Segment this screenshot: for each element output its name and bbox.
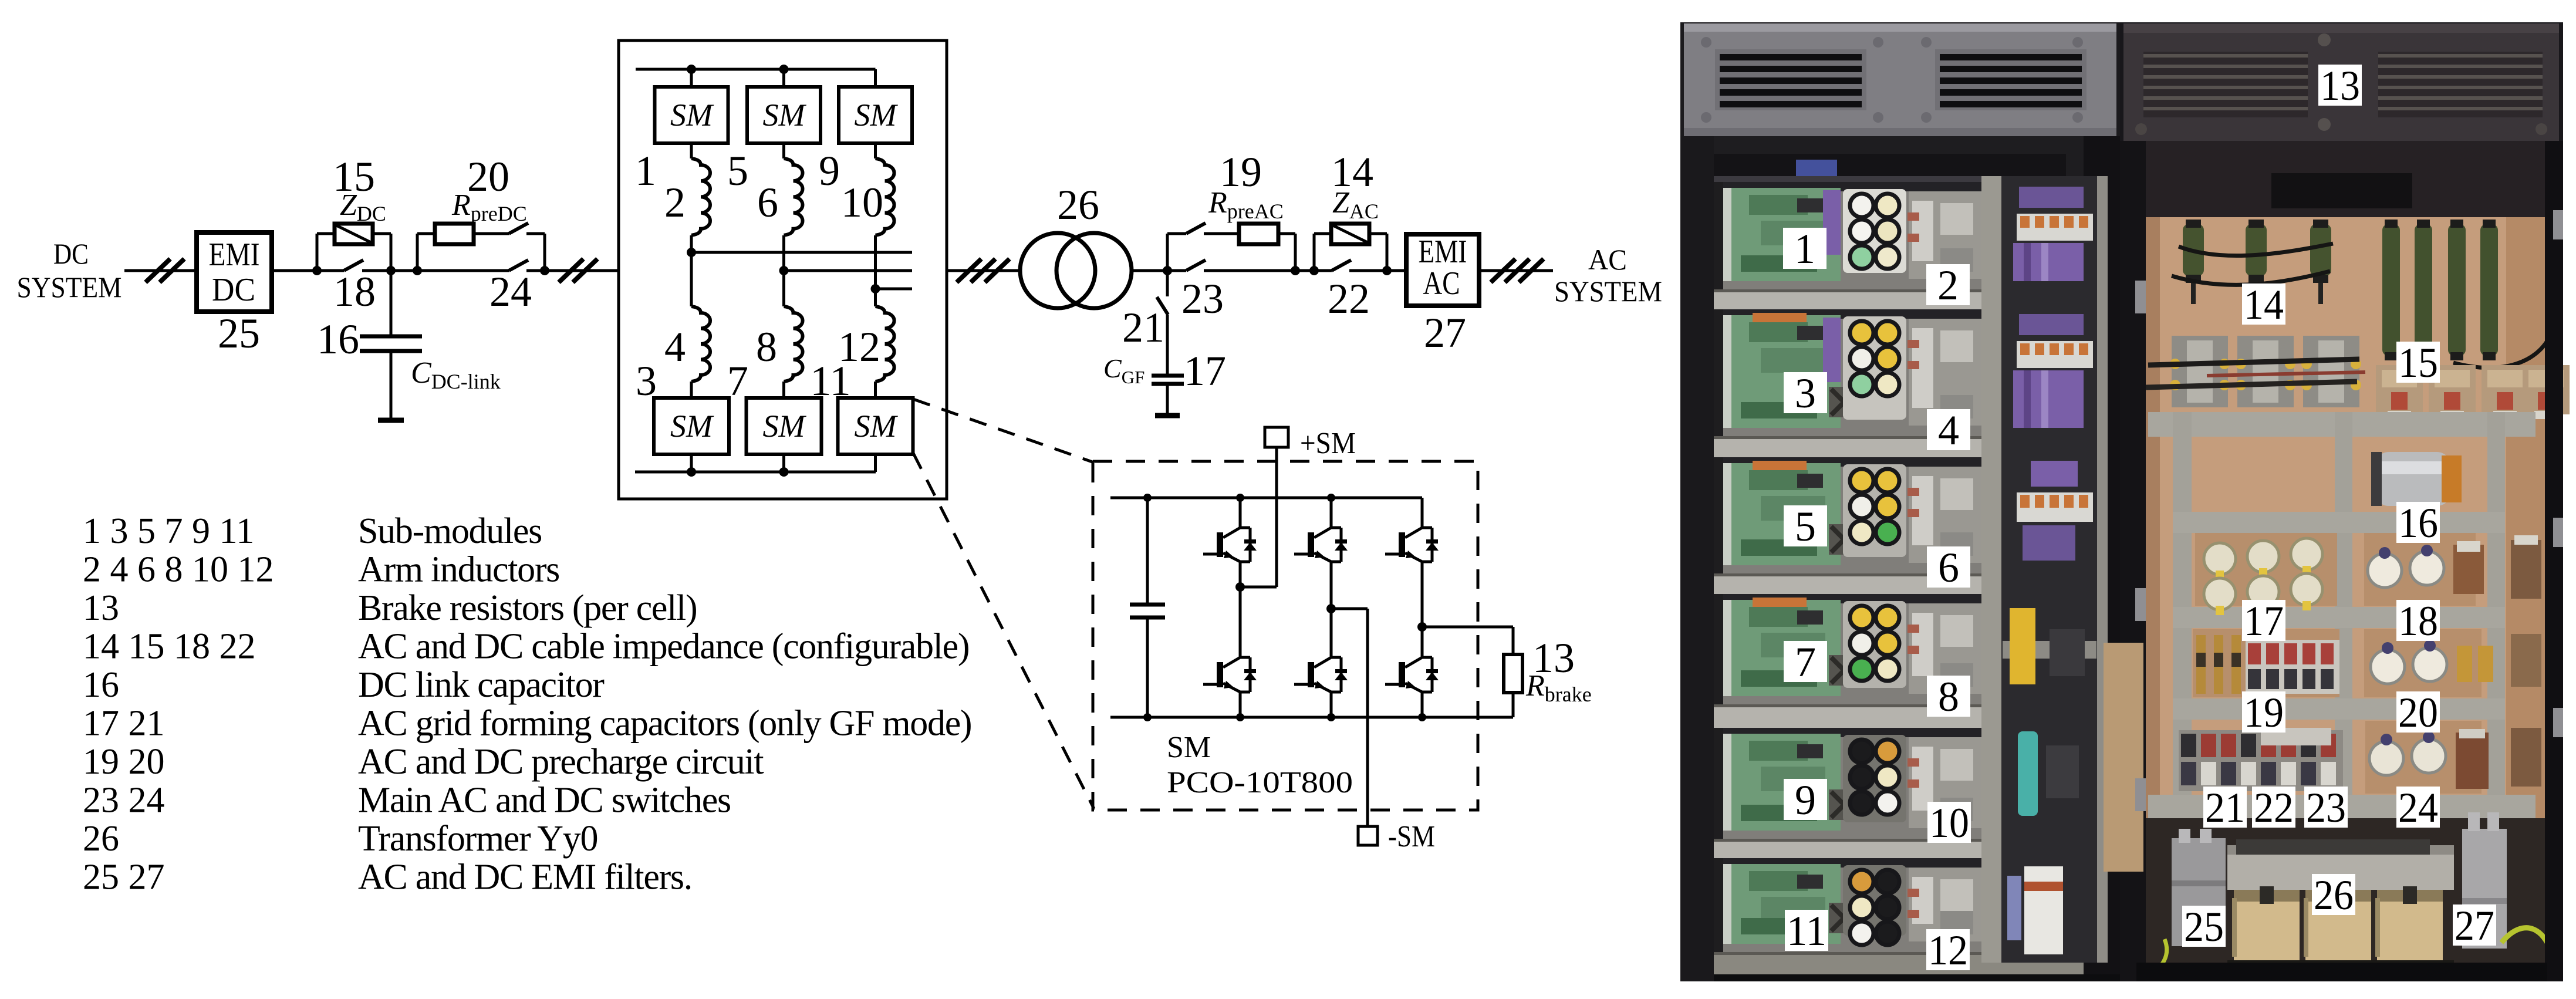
capacitor 17 C_GF top plate xyxy=(1152,374,1184,378)
svg-text:Main AC and DC switches: Main AC and DC switches xyxy=(358,781,731,821)
photo: shelf rail xyxy=(1714,839,2084,858)
wire xyxy=(1204,269,1295,272)
MMC converter outline box xyxy=(619,41,947,499)
wire EMI DC to node A xyxy=(272,269,317,272)
photo: left cabinet right frame xyxy=(2084,136,2120,981)
wire xyxy=(874,143,877,158)
switch 24 (main DC switch) xyxy=(509,260,528,271)
wire phase a output xyxy=(691,251,912,254)
photo: transformer 26 xyxy=(2227,852,2454,890)
svg-text:16: 16 xyxy=(83,665,119,705)
junction rail xyxy=(1143,494,1152,502)
photo: filter choke blocks xyxy=(2172,336,2228,407)
junction bus xyxy=(687,467,696,477)
wire SM positive rail xyxy=(1110,497,1422,500)
svg-text:13: 13 xyxy=(83,588,119,628)
svg-text:EMI: EMI xyxy=(1419,234,1467,270)
sub-module SM 9 (upper arm) xyxy=(839,87,912,143)
svg-text:17: 17 xyxy=(1184,347,1226,394)
wire upper arm to lower arm xyxy=(874,235,877,306)
svg-text:SM: SM xyxy=(763,97,807,133)
svg-text:24: 24 xyxy=(2398,784,2438,831)
junction DC-link node xyxy=(386,266,396,275)
svg-text:25: 25 xyxy=(218,310,260,357)
wire xyxy=(1295,269,1314,272)
photo: left cabinet bottom edge xyxy=(1714,974,2120,981)
junction xyxy=(1382,266,1392,275)
wire xyxy=(1314,232,1331,235)
wire xyxy=(690,69,693,87)
ground symbol xyxy=(1155,413,1180,419)
svg-text:18: 18 xyxy=(333,268,376,315)
svg-text:DC: DC xyxy=(53,237,89,270)
wire AC precharge branch left xyxy=(1166,234,1169,271)
wire xyxy=(1512,627,1515,654)
wire xyxy=(1421,692,1424,717)
wire xyxy=(526,269,545,272)
svg-text:11: 11 xyxy=(1787,907,1827,954)
photo: fuse and terminal rows 19 xyxy=(2196,635,2206,694)
wire xyxy=(1369,232,1387,235)
wire DC- bottom bus xyxy=(635,471,876,474)
photo: electrolytic capacitor 16 xyxy=(2375,452,2451,506)
svg-text:2: 2 xyxy=(1937,262,1959,309)
DC bus slash marks xyxy=(146,259,184,282)
photo: fuse holder modules xyxy=(2376,365,2423,414)
wire xyxy=(526,232,545,235)
impedance Z_DC 15 (configurable cable impedance) xyxy=(335,224,373,244)
svg-text:21: 21 xyxy=(1122,304,1164,351)
wire xyxy=(417,232,435,235)
callout dashed line (SM zoom bottom) xyxy=(913,453,1094,809)
svg-text:AC and DC cable impedance (con: AC and DC cable impedance (configurable) xyxy=(358,627,969,667)
sub-module SM 5 (upper arm) xyxy=(747,87,821,143)
photo: left cabinet center divider xyxy=(1981,176,2001,963)
wire AC precharge branch right xyxy=(1294,234,1297,271)
svg-text:4: 4 xyxy=(1938,407,1959,454)
terminal +SM xyxy=(1265,427,1288,447)
svg-text:SM: SM xyxy=(670,409,714,444)
transistor Q4 (IGBT with antiparallel diode) xyxy=(1294,657,1348,692)
arm inductor 2 (upper) xyxy=(691,158,710,235)
junction phase 3 output node xyxy=(871,284,880,293)
photo: right cabinet tan back panel xyxy=(2136,217,2547,822)
wire xyxy=(417,269,509,272)
wire EMI AC to AC system xyxy=(1479,269,1553,272)
transistor Q5 (IGBT with antiparallel diode) xyxy=(1385,528,1439,562)
wire half-bridge midpoint xyxy=(1239,562,1242,657)
svg-text:19: 19 xyxy=(2244,689,2284,736)
svg-text:5: 5 xyxy=(1795,503,1816,550)
transformer 26 (Yy0) xyxy=(1020,233,1095,308)
wire xyxy=(373,232,391,235)
transistor Q1 (IGBT with antiparallel diode) xyxy=(1203,528,1257,562)
photo: left cabinet shelf row 5 xyxy=(1714,728,2084,839)
junction brake tap xyxy=(1417,622,1427,632)
photo: right cabinet bottom bay xyxy=(2136,818,2547,974)
photo: vent grille xyxy=(1715,49,1866,110)
svg-text:9: 9 xyxy=(819,147,840,194)
wire Z_AC branch left xyxy=(1313,234,1316,271)
wire Z_AC branch right xyxy=(1386,234,1389,271)
impedance Z_AC 14 (configurable cable impedance) xyxy=(1331,224,1369,244)
photo: left cabinet interior xyxy=(1714,176,2084,963)
wire xyxy=(1132,269,1167,272)
wire half-bridge midpoint xyxy=(1421,562,1424,657)
wire to C_GF xyxy=(1166,315,1169,376)
capacitor 16 C_DC-link top plate xyxy=(360,335,422,339)
EMI filter 25 (EMI DC) xyxy=(197,232,272,312)
wire xyxy=(782,382,785,398)
wire Z_DC branch right xyxy=(390,234,393,271)
EMI filter 27 (EMI AC) xyxy=(1406,234,1479,306)
svg-text:+SM: +SM xyxy=(1300,427,1356,460)
photo: terminal block rows 21 22 23 xyxy=(2179,730,2343,791)
photo: left cabinet shelf row 3 xyxy=(1714,457,2084,573)
svg-text:PCO-10T800: PCO-10T800 xyxy=(1167,766,1353,799)
svg-text:7: 7 xyxy=(1795,639,1816,686)
photo: shelf rail xyxy=(1714,952,2084,974)
photo: left cabinet body xyxy=(1680,22,2120,981)
junction bus xyxy=(687,65,696,74)
junction xyxy=(1309,266,1319,275)
wire xyxy=(1349,269,1387,272)
svg-text:21: 21 xyxy=(2205,784,2245,831)
photo: left cabinet shelf row 6 xyxy=(1714,858,2084,952)
svg-text:Transformer Yy0: Transformer Yy0 xyxy=(358,819,597,859)
wire xyxy=(474,232,509,235)
wire to MMC xyxy=(545,269,619,272)
wire xyxy=(690,454,693,472)
svg-text:DC link capacitor: DC link capacitor xyxy=(358,665,605,705)
wire xyxy=(874,382,877,398)
svg-text:27: 27 xyxy=(2455,902,2494,949)
wire half-bridge midpoint xyxy=(1330,562,1333,657)
junction AC node xyxy=(1163,266,1172,275)
svg-text:Arm inductors: Arm inductors xyxy=(358,550,559,590)
svg-text:23 24: 23 24 xyxy=(83,781,165,821)
svg-text:-SM: -SM xyxy=(1388,820,1435,853)
svg-text:17 21: 17 21 xyxy=(83,704,165,744)
photo: duct right rail xyxy=(2097,176,2108,963)
callout dashed line (SM zoom top) xyxy=(913,399,1094,463)
resistor R_preAC 19 (AC precharge) xyxy=(1239,224,1278,244)
svg-text:8: 8 xyxy=(1938,673,1959,720)
svg-text:6: 6 xyxy=(1938,544,1959,591)
svg-text:5: 5 xyxy=(727,147,748,194)
sub-module SM 3 (lower arm) xyxy=(654,398,729,454)
photo: right cabinet shadow band xyxy=(2136,141,2547,217)
wire precharge branch right xyxy=(543,234,546,271)
svg-text:SYSTEM: SYSTEM xyxy=(17,271,122,303)
terminal -SM xyxy=(1358,826,1378,845)
svg-text:4: 4 xyxy=(664,323,686,370)
wire xyxy=(782,454,785,472)
junction +SM tap xyxy=(1235,582,1245,592)
photo: round capacitors group 18 xyxy=(2368,553,2402,588)
svg-text:1: 1 xyxy=(1794,225,1815,272)
wire xyxy=(782,143,785,158)
svg-text:1: 1 xyxy=(635,147,656,194)
wire xyxy=(391,269,417,272)
junction xyxy=(540,266,549,275)
sub-module detail dashed box xyxy=(1093,461,1478,810)
AC bus slash marks xyxy=(957,259,1010,282)
svg-text:6: 6 xyxy=(757,179,778,226)
wire precharge branch left xyxy=(416,234,419,271)
svg-text:14: 14 xyxy=(2244,281,2284,328)
svg-text:3: 3 xyxy=(1795,370,1816,417)
resistor R_brake 13 (brake resistor) xyxy=(1504,654,1522,693)
photo: shelf rail xyxy=(1714,436,2084,457)
svg-text:12: 12 xyxy=(838,323,880,370)
wire xyxy=(782,69,785,87)
impedance symbol diagonal xyxy=(335,225,372,243)
wire xyxy=(1204,232,1239,235)
svg-text:1 3 5 7 9 11: 1 3 5 7 9 11 xyxy=(83,511,254,551)
photo: shelf rail xyxy=(1714,573,2084,594)
svg-text:Sub-modules: Sub-modules xyxy=(358,511,542,551)
wire xyxy=(1167,232,1186,235)
photo: right cabinet body xyxy=(2120,22,2563,981)
svg-text:17: 17 xyxy=(2244,598,2284,644)
photo: left cabinet left frame xyxy=(1680,136,1714,981)
wire DC+ top bus xyxy=(636,68,876,71)
wire xyxy=(1387,269,1406,272)
wire xyxy=(1330,692,1333,717)
junction rail xyxy=(1327,494,1335,502)
photo: left cabinet shelf row 1 xyxy=(1714,182,2084,289)
node A junction xyxy=(312,266,322,275)
svg-text:SM: SM xyxy=(763,409,807,444)
junction rail xyxy=(1143,713,1152,721)
wire MMC to transformer xyxy=(947,269,1020,272)
svg-text:SM: SM xyxy=(670,97,714,133)
photo: left cabinet top vent panel xyxy=(1684,23,2116,136)
wire DC system to EMI DC xyxy=(124,269,197,272)
junction rail xyxy=(1327,713,1335,721)
photo: right cabinet left frame xyxy=(2120,141,2146,981)
svg-text:24: 24 xyxy=(489,268,532,315)
photo: numbered labels xyxy=(1783,228,1827,269)
arm inductor 10 (upper) xyxy=(876,158,894,235)
photo: EMI filter box 27 xyxy=(2462,829,2507,949)
wire xyxy=(1421,498,1424,528)
wire xyxy=(1331,607,1368,610)
junction rail xyxy=(1236,494,1244,502)
capacitor 17 bottom plate xyxy=(1152,382,1184,386)
photo: vent grille xyxy=(2143,52,2308,117)
svg-text:16: 16 xyxy=(2398,500,2438,546)
photo: vent grille xyxy=(1935,49,2087,110)
svg-text:2 4 6 8 10 12: 2 4 6 8 10 12 xyxy=(83,550,274,590)
arm inductor 4 (lower) xyxy=(691,306,710,382)
junction bus xyxy=(779,65,789,74)
svg-text:AC grid forming capacitors (on: AC grid forming capacitors (only GF mode… xyxy=(358,704,971,744)
svg-text:20: 20 xyxy=(467,153,509,200)
svg-text:AC: AC xyxy=(1423,265,1460,302)
svg-text:2: 2 xyxy=(664,179,686,226)
photo: shelf rail xyxy=(1714,289,2084,309)
switch 18 (DC impedance bypass) xyxy=(344,260,363,271)
wire phase b output xyxy=(784,269,913,272)
switch 21 (GF capacitor switch) xyxy=(1157,297,1168,315)
transistor Q3 (IGBT with antiparallel diode) xyxy=(1294,528,1348,562)
wire to -SM terminal xyxy=(1366,609,1369,826)
svg-text:SM: SM xyxy=(1167,731,1211,764)
wire xyxy=(1278,232,1295,235)
photo: right cabinet top panel xyxy=(2123,23,2559,141)
wire upper arm to lower arm xyxy=(690,235,693,306)
photo: left cabinet header band xyxy=(1684,136,2087,182)
photo: background wall strip xyxy=(2104,643,2143,872)
svg-text:8: 8 xyxy=(756,323,777,370)
wire Z_DC branch left xyxy=(316,234,319,271)
svg-text:26: 26 xyxy=(2314,872,2354,919)
DC bus slash marks xyxy=(559,259,597,282)
svg-text:SM: SM xyxy=(855,409,899,444)
junction phase 1 output node xyxy=(687,248,696,257)
switch 22 (AC impedance bypass) xyxy=(1332,260,1351,271)
wire xyxy=(874,454,877,472)
photo: left cabinet shelf row 4 xyxy=(1714,594,2084,704)
svg-text:EMI: EMI xyxy=(209,237,260,273)
wire to switch 21 xyxy=(1166,271,1169,296)
impedance symbol diagonal xyxy=(1332,225,1369,243)
wire xyxy=(1146,498,1149,605)
svg-text:25 27: 25 27 xyxy=(83,858,165,897)
svg-text:16: 16 xyxy=(317,316,359,363)
wire SM negative rail xyxy=(1110,716,1513,719)
wire xyxy=(317,232,335,235)
sub-module SM 11 (lower arm) xyxy=(838,398,913,454)
svg-text:26: 26 xyxy=(83,819,119,859)
svg-text:20: 20 xyxy=(2398,689,2438,736)
svg-text:AC: AC xyxy=(1588,243,1627,276)
junction rail xyxy=(1418,713,1426,721)
svg-text:AC and DC EMI filters.: AC and DC EMI filters. xyxy=(358,858,692,897)
photo: right cabinet rack frame xyxy=(2148,412,2536,437)
svg-text:22: 22 xyxy=(2254,784,2294,831)
svg-text:18: 18 xyxy=(2398,598,2438,644)
wire xyxy=(1330,498,1333,528)
wire phase c output xyxy=(876,288,913,291)
wire xyxy=(1239,692,1242,717)
switch 20 (DC precharge switch) xyxy=(509,223,528,234)
sub-module SM 7 (lower arm) xyxy=(747,398,822,454)
junction -SM tap xyxy=(1326,604,1336,613)
wire xyxy=(1239,498,1242,528)
wire to +SM terminal xyxy=(1275,447,1278,587)
wire to ground xyxy=(1166,384,1169,414)
junction bus xyxy=(779,467,789,477)
svg-text:7: 7 xyxy=(727,357,748,404)
svg-text:10: 10 xyxy=(841,179,883,226)
svg-text:3: 3 xyxy=(636,357,657,404)
wire xyxy=(690,143,693,158)
svg-text:12: 12 xyxy=(1928,927,1968,974)
svg-text:25: 25 xyxy=(2184,903,2224,950)
photo: round capacitors group 17 xyxy=(2204,543,2236,575)
switch 23 (main AC switch) xyxy=(1186,260,1206,271)
photo: capacitors and resistors 20 xyxy=(2371,650,2405,684)
svg-text:23: 23 xyxy=(2306,784,2346,831)
svg-text:SYSTEM: SYSTEM xyxy=(1554,275,1662,308)
svg-text:DC: DC xyxy=(212,272,255,308)
capacitor SM DC-link bottom plate xyxy=(1130,616,1165,620)
svg-text:SM: SM xyxy=(855,97,899,133)
photo: shelf rail xyxy=(1714,704,2084,728)
ground symbol xyxy=(378,418,404,423)
wire xyxy=(690,382,693,398)
svg-text:27: 27 xyxy=(1424,309,1466,356)
wire to C_DC-link xyxy=(390,271,393,336)
photo: vent grille xyxy=(2378,52,2543,117)
sub-module SM 1 (upper arm) xyxy=(655,87,728,143)
svg-text:Brake resistors (per cell): Brake resistors (per cell) xyxy=(358,588,697,628)
svg-text:13: 13 xyxy=(2320,62,2360,109)
switch 19 (AC precharge switch) xyxy=(1186,223,1206,234)
wire xyxy=(362,269,391,272)
photo: green wire-wound resistors xyxy=(2183,224,2204,276)
wire xyxy=(1240,586,1277,589)
svg-text:22: 22 xyxy=(1328,275,1370,322)
photo: left cabinet cable duct column xyxy=(2001,176,2097,963)
wire to ground xyxy=(390,351,393,419)
svg-text:14 15 18 22: 14 15 18 22 xyxy=(83,627,256,667)
junction xyxy=(1291,266,1300,275)
svg-text:10: 10 xyxy=(1929,799,1969,846)
wire xyxy=(317,269,344,272)
svg-text:26: 26 xyxy=(1057,181,1099,228)
photo: left cabinet shelf row 2 xyxy=(1714,309,2084,436)
photo: capacitors 24 xyxy=(2369,741,2403,775)
capacitor SM DC-link top plate xyxy=(1130,603,1165,607)
capacitor 16 bottom plate xyxy=(360,349,422,353)
wire xyxy=(1512,693,1515,717)
arm inductor 12 (lower) xyxy=(876,306,894,382)
junction xyxy=(413,266,422,275)
junction rail xyxy=(1236,713,1244,721)
svg-text:23: 23 xyxy=(1181,275,1224,322)
svg-text:15: 15 xyxy=(2398,339,2438,386)
photo: right cabinet right frame xyxy=(2545,141,2563,981)
wire upper arm to lower arm xyxy=(782,235,785,306)
wire xyxy=(1167,269,1186,272)
svg-text:9: 9 xyxy=(1795,777,1816,824)
resistor R_preDC 20 (DC precharge) xyxy=(435,224,474,244)
wire xyxy=(874,69,877,87)
wire xyxy=(1314,269,1332,272)
arm inductor 8 (lower) xyxy=(784,306,803,382)
junction phase 2 output node xyxy=(779,266,789,275)
photo: EMI filter box 25 xyxy=(2172,838,2226,946)
svg-text:19 20: 19 20 xyxy=(83,742,165,782)
arm inductor 6 (upper) xyxy=(784,158,803,235)
transistor Q6 (IGBT with antiparallel diode) xyxy=(1385,657,1439,692)
wire xyxy=(1146,617,1149,717)
svg-text:AC and DC precharge circuit: AC and DC precharge circuit xyxy=(358,742,764,782)
transistor Q2 (IGBT with antiparallel diode) xyxy=(1203,657,1257,692)
AC bus slash marks xyxy=(1491,259,1544,282)
wire to R_brake xyxy=(1422,626,1513,629)
